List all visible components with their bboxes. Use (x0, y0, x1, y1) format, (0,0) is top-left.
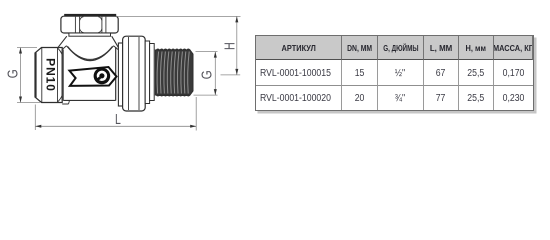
svg-text:L: L (115, 110, 121, 127)
svg-text:G: G (198, 70, 215, 79)
male thread G (155, 49, 193, 96)
dimension H: dimension line (236, 16, 238, 75)
bonnet cone (58, 36, 119, 48)
union nut PN10 (35, 48, 62, 103)
svg-text:H: H (221, 42, 238, 50)
hex nut (118, 36, 145, 111)
header cell Н, мм (459, 36, 494, 60)
header cell МАССА, КГ (494, 36, 533, 60)
dimension G right: arrows (214, 52, 217, 96)
dimension H: extension lines (116, 16, 241, 75)
logo spiral (98, 72, 106, 80)
svg-text:PN10: PN10 (43, 58, 57, 92)
row 2 DN (342, 86, 378, 109)
dimension G left: arrows (19, 48, 22, 103)
row 1 G (378, 60, 424, 86)
header cell L, ММ (424, 36, 459, 60)
dimension G right: dimension line (214, 52, 216, 96)
dimension L: extension lines (35, 97, 196, 131)
row 1 масса (494, 60, 533, 86)
row 1 H (459, 60, 494, 86)
dimension G left: dimension line (20, 48, 22, 103)
dimension L: dimension line (35, 125, 196, 127)
header cell G, ДЮЙМЫ (378, 36, 424, 60)
row 2 L (424, 86, 459, 109)
dimension L: arrows (35, 125, 196, 128)
dimension G left: extension lines (17, 48, 40, 103)
cap nut top bar (64, 14, 116, 17)
row 2 масса (494, 86, 533, 109)
row 2 G (378, 86, 424, 109)
row 2 H (459, 86, 494, 109)
row 1 артикул (256, 60, 342, 86)
logo ring (94, 68, 111, 85)
valve technical drawing (0, 0, 250, 142)
svg-text:G: G (4, 69, 21, 78)
row 1 L (424, 60, 459, 86)
logo flag (69, 67, 116, 86)
valve body (62, 46, 118, 104)
dimension G right: extension lines (194, 52, 218, 96)
row 1 DN (342, 60, 378, 86)
logo spiral tail (96, 78, 100, 81)
dimension H: arrows (235, 16, 238, 75)
cap nut (61, 16, 118, 33)
washer under cap (69, 33, 111, 36)
header cell АРТИКУЛ (256, 36, 342, 60)
collar (145, 41, 154, 104)
header cell DN, ММ (342, 36, 378, 60)
row 2 артикул (256, 86, 342, 109)
specification table (255, 35, 534, 111)
